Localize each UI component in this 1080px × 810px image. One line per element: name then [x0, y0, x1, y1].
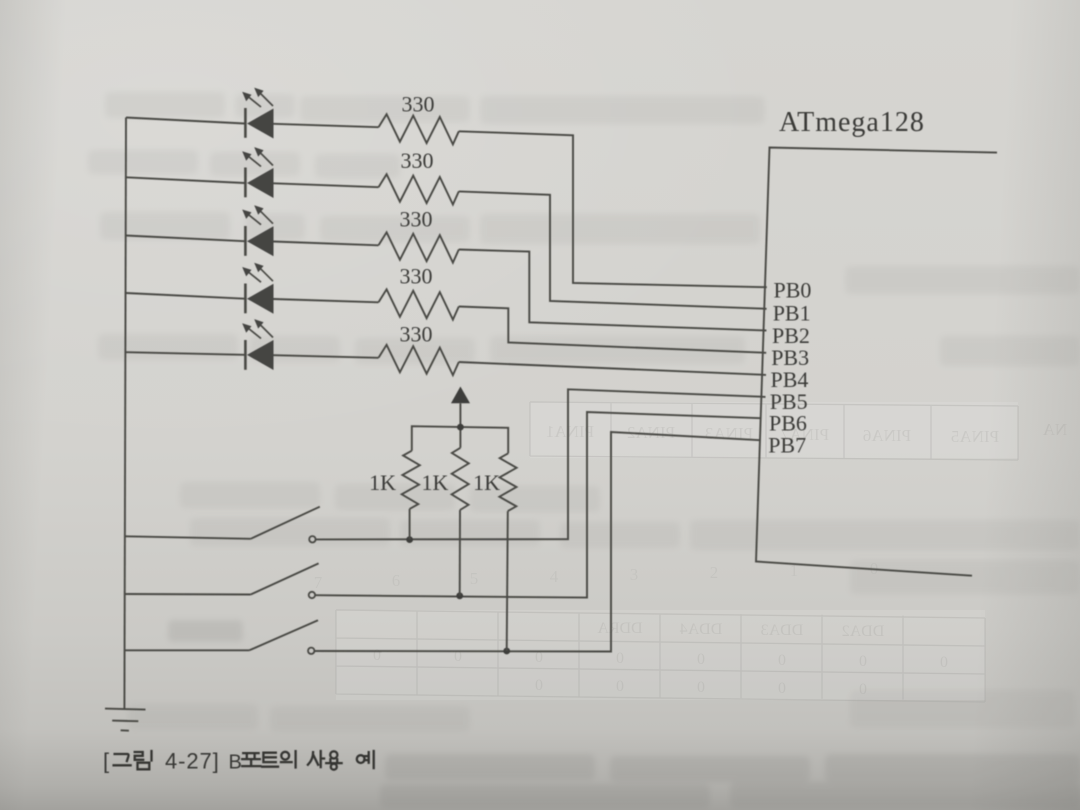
- svg-text:0: 0: [778, 652, 786, 669]
- wire RK2 to SW2 line: [459, 510, 461, 596]
- wire R4 to PB3: [459, 307, 766, 353]
- resistor RK1 1K: [402, 451, 420, 509]
- wire pull-up top bar: [412, 426, 508, 453]
- svg-text:PB1: PB1: [773, 301, 811, 326]
- svg-text:330: 330: [400, 322, 433, 347]
- hangul GEU: [114, 754, 131, 765]
- svg-text:DDA4: DDA4: [680, 621, 723, 638]
- svg-text:0: 0: [940, 654, 948, 671]
- wire R1 to PB0: [459, 131, 767, 287]
- svg-text:PINA5: PINA5: [951, 427, 999, 446]
- svg-text:DDRA: DDRA: [597, 620, 643, 637]
- svg-text:2: 2: [710, 563, 719, 582]
- svg-text:1K: 1K: [369, 470, 396, 495]
- svg-text:0: 0: [697, 679, 705, 696]
- hangul SA: [308, 751, 324, 767]
- wire SW2 to PB6: [315, 412, 761, 598]
- resistor RK3 1K: [499, 453, 516, 511]
- svg-text:3: 3: [630, 565, 639, 584]
- wire left supply bus: [124, 118, 126, 710]
- svg-text:0: 0: [859, 653, 867, 670]
- svg-text:6: 6: [392, 571, 401, 590]
- resistor R3 330: [379, 232, 459, 262]
- wire R2 to PB1: [459, 191, 767, 308]
- svg-text:B: B: [229, 752, 242, 774]
- resistor R4 330: [379, 289, 459, 319]
- VCC supply arrow: [451, 387, 470, 448]
- switch SW3: [125, 620, 318, 654]
- LED D5: [242, 319, 273, 370]
- svg-text:4: 4: [550, 567, 559, 586]
- node SW1/RK1 junction: [406, 536, 413, 543]
- faint table 1: [530, 402, 1018, 460]
- svg-text:330: 330: [400, 264, 433, 289]
- faint table 2: [336, 610, 985, 702]
- hangul RIM: [135, 751, 152, 769]
- wire RK3 to SW3 line: [507, 511, 508, 651]
- svg-text:DDA3: DDA3: [761, 622, 804, 639]
- wire row5 bus to LED5: [126, 352, 245, 355]
- resistor R2 330: [379, 174, 459, 204]
- wire LED3 to R3: [274, 242, 379, 246]
- LED D3: [242, 205, 273, 256]
- hangul YE: [357, 751, 374, 768]
- node VCC junction: [457, 424, 464, 431]
- wire row2 bus to LED2: [126, 177, 245, 183]
- wire row1 bus to LED1: [126, 118, 245, 124]
- LED D4: [242, 263, 273, 314]
- svg-text:0: 0: [697, 651, 705, 668]
- hangul TEU: [262, 753, 278, 767]
- switch SW2: [125, 563, 318, 598]
- hangul UI: [281, 751, 296, 767]
- svg-text:1K: 1K: [422, 470, 449, 495]
- resistor R5 330: [379, 345, 459, 375]
- wire R3 to PB2: [459, 250, 767, 331]
- svg-text:330: 330: [401, 148, 434, 173]
- wire LED4 to R4: [274, 299, 379, 302]
- svg-text:0: 0: [535, 677, 543, 694]
- node SW3/RK3 junction: [503, 648, 510, 655]
- svg-text:4-27]: 4-27]: [165, 749, 220, 774]
- svg-text:PB0: PB0: [774, 278, 812, 303]
- svg-text:DDA2: DDA2: [842, 623, 885, 640]
- svg-text:7: 7: [314, 573, 323, 592]
- wire LED1 to R1: [274, 124, 379, 127]
- LED D1: [242, 88, 273, 139]
- wire row3 bus to LED3: [126, 236, 245, 242]
- resistor R1 330: [379, 114, 459, 144]
- svg-text:PB7: PB7: [768, 433, 806, 458]
- IC U1 ATmega128 box: [756, 148, 997, 576]
- svg-text:1K: 1K: [473, 470, 500, 495]
- resistor RK2 1K: [452, 448, 469, 510]
- hangul YONG: [326, 751, 341, 769]
- ground: [105, 709, 146, 731]
- svg-text:330: 330: [400, 206, 433, 231]
- svg-text:0: 0: [616, 678, 624, 695]
- faint digit row: [314, 559, 879, 592]
- wire row4 bus to LED4: [126, 293, 245, 299]
- wire SW1 to PB5: [316, 389, 766, 539]
- svg-text:PINA6: PINA6: [863, 426, 911, 445]
- svg-text:NA: NA: [1042, 420, 1067, 439]
- wire SW3 to PB7: [315, 432, 761, 652]
- hangul PO: [242, 753, 260, 766]
- svg-text:5: 5: [470, 569, 479, 588]
- svg-text:[: [: [103, 749, 109, 774]
- svg-text:0: 0: [373, 647, 381, 664]
- wire RK1 to SW1 line: [409, 509, 411, 540]
- wire R5 to PB4: [459, 362, 766, 375]
- wire LED2 to R2: [274, 183, 379, 187]
- svg-text:ATmega128: ATmega128: [779, 107, 925, 138]
- LED D2: [242, 147, 273, 198]
- svg-text:0: 0: [778, 680, 786, 697]
- svg-text:330: 330: [402, 92, 435, 117]
- node SW2/RK2 junction: [456, 592, 463, 599]
- switch SW1: [126, 507, 320, 543]
- svg-text:0: 0: [859, 681, 867, 698]
- wire LED5 to R5: [274, 355, 379, 358]
- svg-text:0: 0: [616, 650, 624, 667]
